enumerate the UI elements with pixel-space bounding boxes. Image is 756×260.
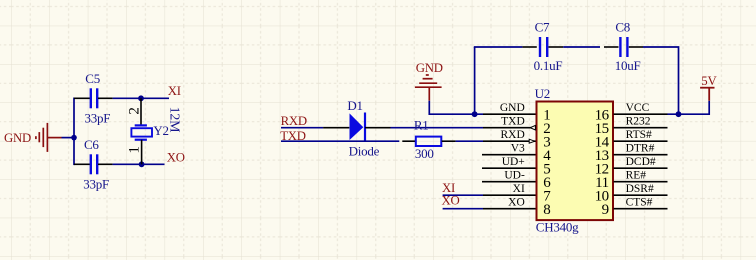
- svg-text:C6: C6: [84, 137, 99, 152]
- svg-text:2: 2: [126, 107, 142, 115]
- power port GND (top, IC): [415, 75, 442, 101]
- junction XI node: [138, 95, 144, 101]
- svg-text:Diode: Diode: [349, 143, 380, 158]
- wire TXD to resistor: [281, 140, 399, 142]
- pin 9 CTS# wire: [614, 208, 668, 210]
- wire RXD to diode: [281, 127, 323, 129]
- IC U2 body: [537, 102, 614, 221]
- pin 16 VCC wire: [614, 113, 668, 115]
- svg-text:10uF: 10uF: [615, 58, 641, 73]
- pin 6 UD- wire: [482, 181, 536, 183]
- wire C6 to XO junction: [113, 163, 142, 165]
- svg-text:U2: U2: [535, 86, 550, 101]
- svg-text:33pF: 33pF: [85, 110, 111, 125]
- wire segment before C8: [604, 46, 619, 48]
- power port 5V: [700, 88, 714, 101]
- svg-text:GND: GND: [500, 102, 525, 114]
- svg-text:UD-: UD-: [504, 169, 525, 181]
- svg-text:0.1uF: 0.1uF: [534, 58, 563, 73]
- svg-text:RXD: RXD: [501, 129, 525, 141]
- pin 5 UD+ wire: [482, 167, 536, 169]
- svg-text:XO: XO: [442, 194, 460, 208]
- svg-text:TXD: TXD: [501, 115, 525, 127]
- svg-text:8: 8: [543, 202, 550, 218]
- wire left vertical rail: [73, 98, 75, 166]
- junction VCC node: [676, 111, 682, 117]
- wire VCC row to 5V riser: [668, 101, 710, 115]
- pin 13 DTR# wire: [614, 154, 668, 156]
- svg-text:33pF: 33pF: [83, 177, 109, 192]
- capacitor C6: [74, 154, 113, 174]
- svg-text:9: 9: [602, 202, 609, 218]
- pin 14 RTS# wire: [614, 140, 668, 142]
- wire XI stub: [141, 97, 169, 99]
- wire GND stub to left rail: [62, 137, 75, 139]
- svg-text:GND: GND: [4, 131, 31, 145]
- svg-text:VCC: VCC: [626, 102, 650, 114]
- svg-text:DTR#: DTR#: [626, 142, 655, 154]
- svg-text:DSR#: DSR#: [626, 183, 654, 195]
- svg-text:RTS#: RTS#: [626, 129, 652, 141]
- svg-text:RXD: RXD: [281, 114, 307, 128]
- svg-text:C5: C5: [85, 71, 100, 86]
- pin 2 output arrow: [530, 125, 535, 130]
- svg-text:300: 300: [415, 146, 434, 161]
- svg-text:V3: V3: [511, 142, 525, 154]
- svg-text:5V: 5V: [701, 74, 717, 88]
- pin 2 TXD wire: [483, 127, 536, 129]
- svg-text:C7: C7: [535, 19, 550, 34]
- power port GND (left): [36, 123, 62, 152]
- pin 4 V3 wire: [482, 154, 536, 156]
- wire GND drop to pin 1 row: [429, 101, 483, 115]
- resistor R1: [402, 137, 455, 146]
- wire C5 to XI junction: [113, 97, 141, 99]
- junction on left rail: [71, 135, 77, 141]
- pin 11 RE# wire: [614, 181, 668, 183]
- svg-text:XI: XI: [513, 183, 525, 195]
- pin 12 DCD# wire: [614, 167, 668, 169]
- crystal Y2: [131, 98, 152, 164]
- wire top rail to right drop: [643, 47, 679, 114]
- wire XO stub: [142, 163, 165, 165]
- svg-text:D1: D1: [347, 98, 362, 113]
- wire left bypass rail (up to top wire): [474, 47, 476, 114]
- pin 8 XO wire: [483, 208, 536, 210]
- svg-text:CH340g: CH340g: [536, 220, 579, 235]
- svg-text:C8: C8: [615, 19, 630, 34]
- capacitor C7: [522, 37, 563, 57]
- svg-text:RE#: RE#: [626, 169, 647, 181]
- svg-text:12M: 12M: [166, 107, 181, 134]
- wire XO to pin 8: [443, 208, 483, 210]
- svg-text:XO: XO: [508, 196, 525, 208]
- svg-text:DCD#: DCD#: [626, 156, 656, 168]
- junction XO node: [139, 161, 145, 167]
- wire XI to pin 7: [443, 194, 483, 196]
- capacitor C8: [620, 37, 643, 57]
- pin 1 GND wire: [483, 113, 536, 115]
- pin 3 input arrow: [529, 139, 535, 143]
- svg-text:XI: XI: [168, 84, 181, 98]
- svg-text:R1: R1: [414, 118, 429, 133]
- diode D1: [323, 113, 390, 141]
- svg-text:R232: R232: [626, 115, 651, 127]
- svg-text:UD+: UD+: [502, 156, 525, 168]
- pin 10 DSR# wire: [614, 194, 668, 196]
- wire resistor to pin 3: [456, 140, 483, 142]
- capacitor C5: [74, 88, 113, 108]
- svg-text:CTS#: CTS#: [626, 196, 653, 208]
- svg-text:XO: XO: [167, 151, 185, 165]
- pin 15 R232 wire: [614, 127, 668, 129]
- wire diode to pin 2: [391, 127, 484, 129]
- svg-text:1: 1: [126, 146, 142, 154]
- wire between C7 and C8: [563, 46, 600, 48]
- wire top rail to C7: [474, 46, 523, 48]
- pin 7 XI wire: [483, 194, 536, 196]
- junction C7 rail / GND row: [472, 111, 478, 117]
- pin 3 RXD wire: [483, 140, 536, 142]
- svg-text:GND: GND: [416, 61, 443, 75]
